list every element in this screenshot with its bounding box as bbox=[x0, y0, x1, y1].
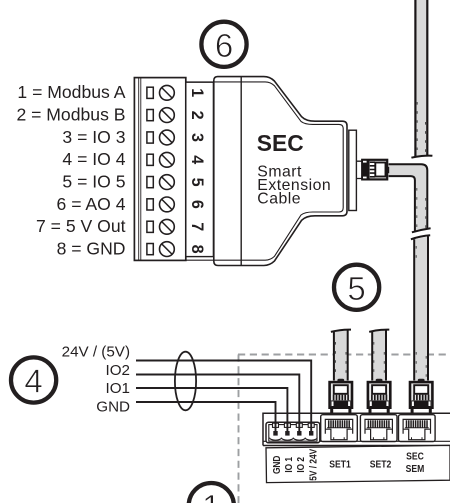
svg-text:IO2: IO2 bbox=[106, 362, 130, 379]
terminal plug scallops bbox=[270, 438, 318, 441]
svg-text:SEC: SEC bbox=[406, 451, 424, 462]
RJ45 jack SEC/SEM bbox=[399, 415, 436, 442]
svg-text:6: 6 bbox=[188, 200, 206, 209]
cable texture ticks bbox=[336, 102, 427, 378]
callout circle 5 bbox=[334, 265, 379, 310]
terminal 4 slot bbox=[147, 154, 153, 165]
svg-text:SET2: SET2 bbox=[370, 459, 392, 470]
wire 24V/(5V) bbox=[136, 361, 311, 432]
svg-text:SEM: SEM bbox=[406, 463, 425, 474]
svg-text:4: 4 bbox=[188, 155, 206, 164]
svg-text:SET1: SET1 bbox=[329, 459, 351, 470]
svg-text:IO1: IO1 bbox=[106, 380, 130, 397]
RJ45 jack SET2 bbox=[360, 415, 397, 442]
terminal 2 screw bbox=[160, 108, 175, 123]
svg-text:6: 6 bbox=[215, 27, 233, 64]
terminal 6 slot bbox=[147, 199, 153, 210]
8-pin terminal block bbox=[134, 78, 185, 261]
RJ45 plug into SET2 bbox=[368, 379, 390, 413]
cable break (upper lip) bbox=[412, 228, 431, 232]
wire pass-through bbox=[284, 423, 290, 427]
RJ45 plug into SET1 bbox=[330, 379, 352, 413]
svg-text:1: 1 bbox=[188, 88, 206, 97]
device panel top strip bbox=[263, 413, 450, 445]
plug cable at x=379.1 bbox=[372, 330, 386, 381]
pin number strip bbox=[186, 82, 214, 256]
cable bundle ellipse bbox=[175, 352, 196, 411]
svg-text:24V / (5V): 24V / (5V) bbox=[62, 343, 130, 360]
dashed device boundary (vertical) bbox=[238, 355, 240, 503]
svg-text:4 = IO 4: 4 = IO 4 bbox=[62, 149, 125, 169]
terminal 6 screw bbox=[160, 197, 175, 212]
SEC enclosure divider bbox=[240, 77, 242, 266]
SEC mounting plate bbox=[349, 130, 357, 210]
svg-text:1: 1 bbox=[202, 488, 220, 503]
svg-text:Cable: Cable bbox=[257, 190, 301, 207]
SEC cable upper segment bbox=[415, 0, 427, 157]
terminal 8 screw bbox=[160, 242, 175, 257]
svg-text:5V / 24V: 5V / 24V bbox=[308, 449, 319, 481]
callout circle 4 bbox=[11, 357, 56, 402]
wire pin tip bbox=[285, 431, 289, 436]
SEC connector plug (horizontal) bbox=[356, 160, 389, 180]
RJ45 jack SET1 bbox=[321, 415, 358, 442]
svg-text:GND: GND bbox=[96, 399, 130, 416]
SEC enclosure outline (inner) bbox=[186, 82, 343, 260]
SEC cable lower segment bbox=[414, 237, 428, 381]
terminal 8 slot bbox=[147, 244, 153, 255]
terminal 5 screw bbox=[160, 175, 175, 190]
svg-text:5 = IO 5: 5 = IO 5 bbox=[62, 171, 125, 191]
terminal 7 screw bbox=[160, 219, 175, 234]
dashed device boundary (horizontal) bbox=[238, 354, 450, 356]
SEC cable elbow segment bbox=[389, 164, 428, 231]
callout circle 6 bbox=[201, 22, 246, 67]
svg-text:5: 5 bbox=[347, 270, 365, 307]
svg-text:8: 8 bbox=[188, 245, 206, 254]
terminal 4 screw bbox=[160, 152, 175, 167]
svg-text:GND: GND bbox=[271, 455, 282, 474]
terminal 3 slot bbox=[147, 132, 153, 143]
cable break cap bbox=[411, 156, 432, 158]
wire pin tip bbox=[297, 431, 301, 436]
wire pass-through bbox=[296, 423, 302, 427]
callout circle 1 bbox=[189, 483, 234, 503]
svg-text:2: 2 bbox=[188, 111, 206, 120]
svg-text:IO 1: IO 1 bbox=[284, 457, 295, 473]
cable break cap bbox=[331, 330, 351, 332]
wire IO1 bbox=[136, 388, 287, 431]
wire IO2 bbox=[136, 375, 299, 432]
svg-text:SEC: SEC bbox=[257, 130, 304, 156]
wire pin tip bbox=[309, 431, 313, 436]
svg-text:IO 2: IO 2 bbox=[296, 457, 307, 473]
plug cable at x=340.8 bbox=[334, 330, 348, 381]
svg-text:8 = GND: 8 = GND bbox=[57, 238, 126, 258]
4-pin terminal plug J4 bbox=[266, 422, 320, 443]
svg-text:1 = Modbus A: 1 = Modbus A bbox=[17, 82, 125, 102]
terminal 7 slot bbox=[147, 221, 153, 232]
terminal 3 screw bbox=[160, 130, 175, 145]
SEC enclosure outline (outer) bbox=[214, 77, 347, 266]
cable break cap bbox=[369, 330, 389, 332]
svg-text:3 = IO 3: 3 = IO 3 bbox=[62, 127, 125, 147]
svg-text:3: 3 bbox=[188, 133, 206, 142]
terminal 1 screw bbox=[160, 85, 175, 100]
terminal 5 slot bbox=[147, 177, 153, 188]
wire GND bbox=[136, 402, 276, 431]
wire pin tip bbox=[273, 431, 277, 436]
RJ45 plug into SEC/SEM bbox=[410, 379, 432, 413]
svg-text:7: 7 bbox=[188, 222, 206, 231]
svg-text:5: 5 bbox=[188, 178, 206, 187]
svg-text:2 = Modbus B: 2 = Modbus B bbox=[16, 104, 125, 124]
cable break (lower lip) bbox=[411, 235, 430, 239]
svg-text:6 = AO 4: 6 = AO 4 bbox=[57, 194, 126, 214]
wire pass-through bbox=[308, 423, 314, 427]
svg-text:7 = 5 V Out: 7 = 5 V Out bbox=[36, 216, 126, 236]
terminal 1 slot bbox=[147, 87, 153, 98]
svg-text:4: 4 bbox=[24, 363, 42, 400]
terminal 2 slot bbox=[147, 110, 153, 121]
device label box bbox=[266, 445, 450, 482]
wire pass-through bbox=[273, 423, 279, 427]
